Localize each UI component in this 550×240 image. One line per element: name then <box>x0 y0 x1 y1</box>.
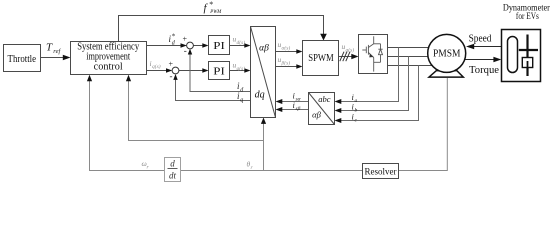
svg-text:Resolver: Resolver <box>365 167 398 177</box>
svg-text:ref: ref <box>53 48 61 55</box>
svg-text:-: - <box>184 46 187 56</box>
svg-text:PI: PI <box>213 66 225 78</box>
svg-text:SPWM: SPWM <box>308 53 334 64</box>
svg-text:*: * <box>209 0 213 9</box>
svg-text:dt: dt <box>169 171 177 181</box>
svg-text:sβ: sβ <box>296 106 301 112</box>
svg-text:b: b <box>355 108 358 114</box>
svg-text:q: q <box>240 98 243 104</box>
svg-text:β(s): β(s) <box>281 60 291 67</box>
svg-text:PMSM: PMSM <box>433 49 461 60</box>
svg-text:a: a <box>355 98 358 104</box>
svg-text:d: d <box>170 159 175 169</box>
svg-text:*: * <box>172 33 176 41</box>
svg-text:dq: dq <box>255 90 265 101</box>
svg-text:sα: sα <box>296 97 301 103</box>
svg-text:q(s): q(s) <box>237 65 246 72</box>
svg-text:abc: abc <box>318 94 331 104</box>
svg-text:T: T <box>46 42 53 54</box>
svg-text:g(s): g(s) <box>346 47 355 54</box>
svg-text:α(s): α(s) <box>282 45 291 52</box>
svg-text:for EVs: for EVs <box>516 11 539 22</box>
svg-text:control: control <box>94 62 123 73</box>
svg-text:Speed: Speed <box>469 34 492 45</box>
svg-text:PI: PI <box>213 40 225 52</box>
svg-text:PWM: PWM <box>209 10 222 15</box>
svg-text:Torque: Torque <box>469 65 500 76</box>
svg-text:αβ: αβ <box>259 43 269 53</box>
svg-text:d(s): d(s) <box>237 39 246 46</box>
svg-text:-: - <box>170 71 173 81</box>
svg-text:+: + <box>183 35 188 44</box>
svg-text:q(s): q(s) <box>152 63 161 70</box>
svg-text:+: + <box>169 59 174 68</box>
svg-text:Throttle: Throttle <box>8 54 37 65</box>
svg-text:αβ: αβ <box>312 110 321 120</box>
